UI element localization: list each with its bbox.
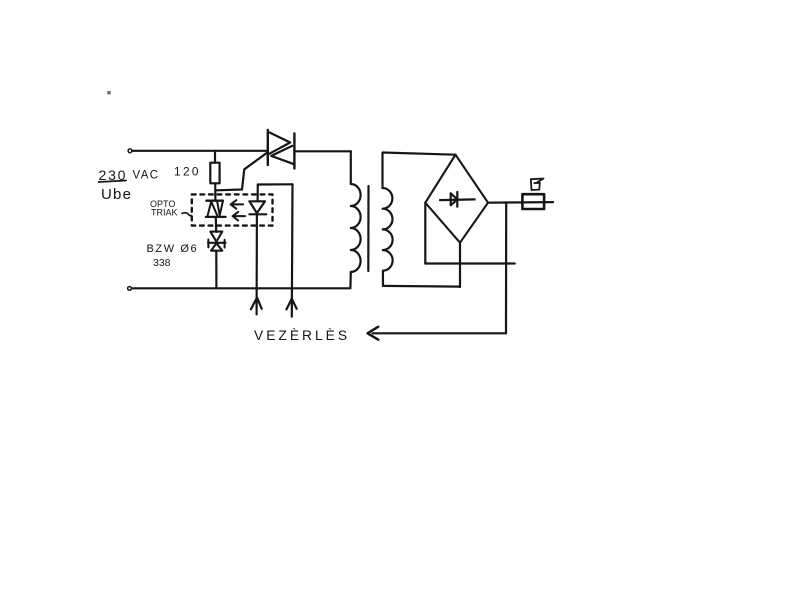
wire bridge bottom leg [459, 243, 461, 287]
wire top right to transformer [295, 150, 351, 152]
transformer T1 primary top lead [350, 151, 352, 184]
triac Q1 left bar [267, 130, 269, 165]
wire top mains [132, 150, 267, 152]
triac Q1 right bar [293, 134, 295, 169]
transformer T1 core [367, 186, 369, 271]
node N terminal hook [128, 287, 132, 291]
opto-triac U1 down triangle [217, 201, 223, 215]
opto-triac U1 dashed box [192, 194, 273, 225]
bridge diode triangle [451, 193, 458, 205]
wire output plus [488, 201, 553, 204]
wire control left drop [256, 214, 258, 315]
transformer T1 primary winding [351, 184, 361, 272]
transformer T1 primary bottom lead [349, 272, 352, 288]
opto-triac U1 top bar [206, 200, 223, 202]
wire bridge left leg down [424, 203, 426, 264]
diac D2 bottom triangle [211, 243, 222, 251]
wire triac gate [217, 153, 268, 191]
wire diac bottom [215, 251, 217, 288]
transformer T1 secondary winding [383, 188, 393, 271]
label B glyph [531, 179, 544, 191]
light arrow 2 [233, 212, 245, 221]
wire LED top link [258, 183, 293, 185]
resistor R1 120 [210, 163, 219, 184]
triac Q1 upper triangle [268, 132, 290, 154]
opto-triac U1 bottom bar [206, 216, 226, 218]
svg-text:338: 338 [153, 257, 171, 269]
wire bottom mains [132, 287, 350, 289]
light arrow 1 [231, 200, 244, 209]
wire bridge minus horizontal [425, 262, 514, 264]
transformer T1 secondary bottom lead [382, 271, 384, 286]
svg-text:VEZÈRLÈS: VEZÈRLÈS [254, 327, 350, 343]
diac D2 top triangle [210, 232, 222, 242]
stray dot [107, 91, 110, 94]
arrowhead feedback [368, 327, 379, 340]
wire feedback vertical [505, 202, 507, 333]
wire opto to diac [215, 217, 218, 232]
bridge diode bar [456, 192, 458, 207]
node L terminal hook [128, 149, 132, 153]
fuse F1 [522, 194, 544, 209]
wire resistor top [214, 151, 216, 163]
opto-triac U1 up triangle [208, 202, 218, 216]
svg-text:VAC: VAC [133, 170, 160, 182]
LED D1 cathode bar [249, 213, 266, 215]
bridge diode line [440, 198, 475, 201]
diac D2 crossbar [208, 240, 226, 248]
wire LED anode up [257, 185, 259, 201]
wire secondary bottom [383, 285, 460, 288]
LED D1 triangle [249, 201, 265, 213]
wire control right drop [291, 184, 294, 316]
svg-text:120: 120 [174, 165, 201, 179]
svg-text:TRIAK: TRIAK [151, 207, 178, 217]
bridge rectifier BR1 diamond [425, 155, 488, 243]
svg-text:BZW Ø6: BZW Ø6 [147, 243, 199, 255]
triac Q1 lower triangle [271, 146, 294, 164]
wire feedback horizontal [373, 332, 507, 334]
squiggle pointer [182, 213, 192, 216]
svg-text:Ube: Ube [101, 186, 132, 203]
transformer T1 secondary top lead [383, 153, 456, 189]
arrowhead control left [251, 298, 262, 310]
wire resistor bottom [214, 183, 216, 200]
arrowhead control right [286, 299, 296, 310]
underline 230 [99, 181, 126, 183]
